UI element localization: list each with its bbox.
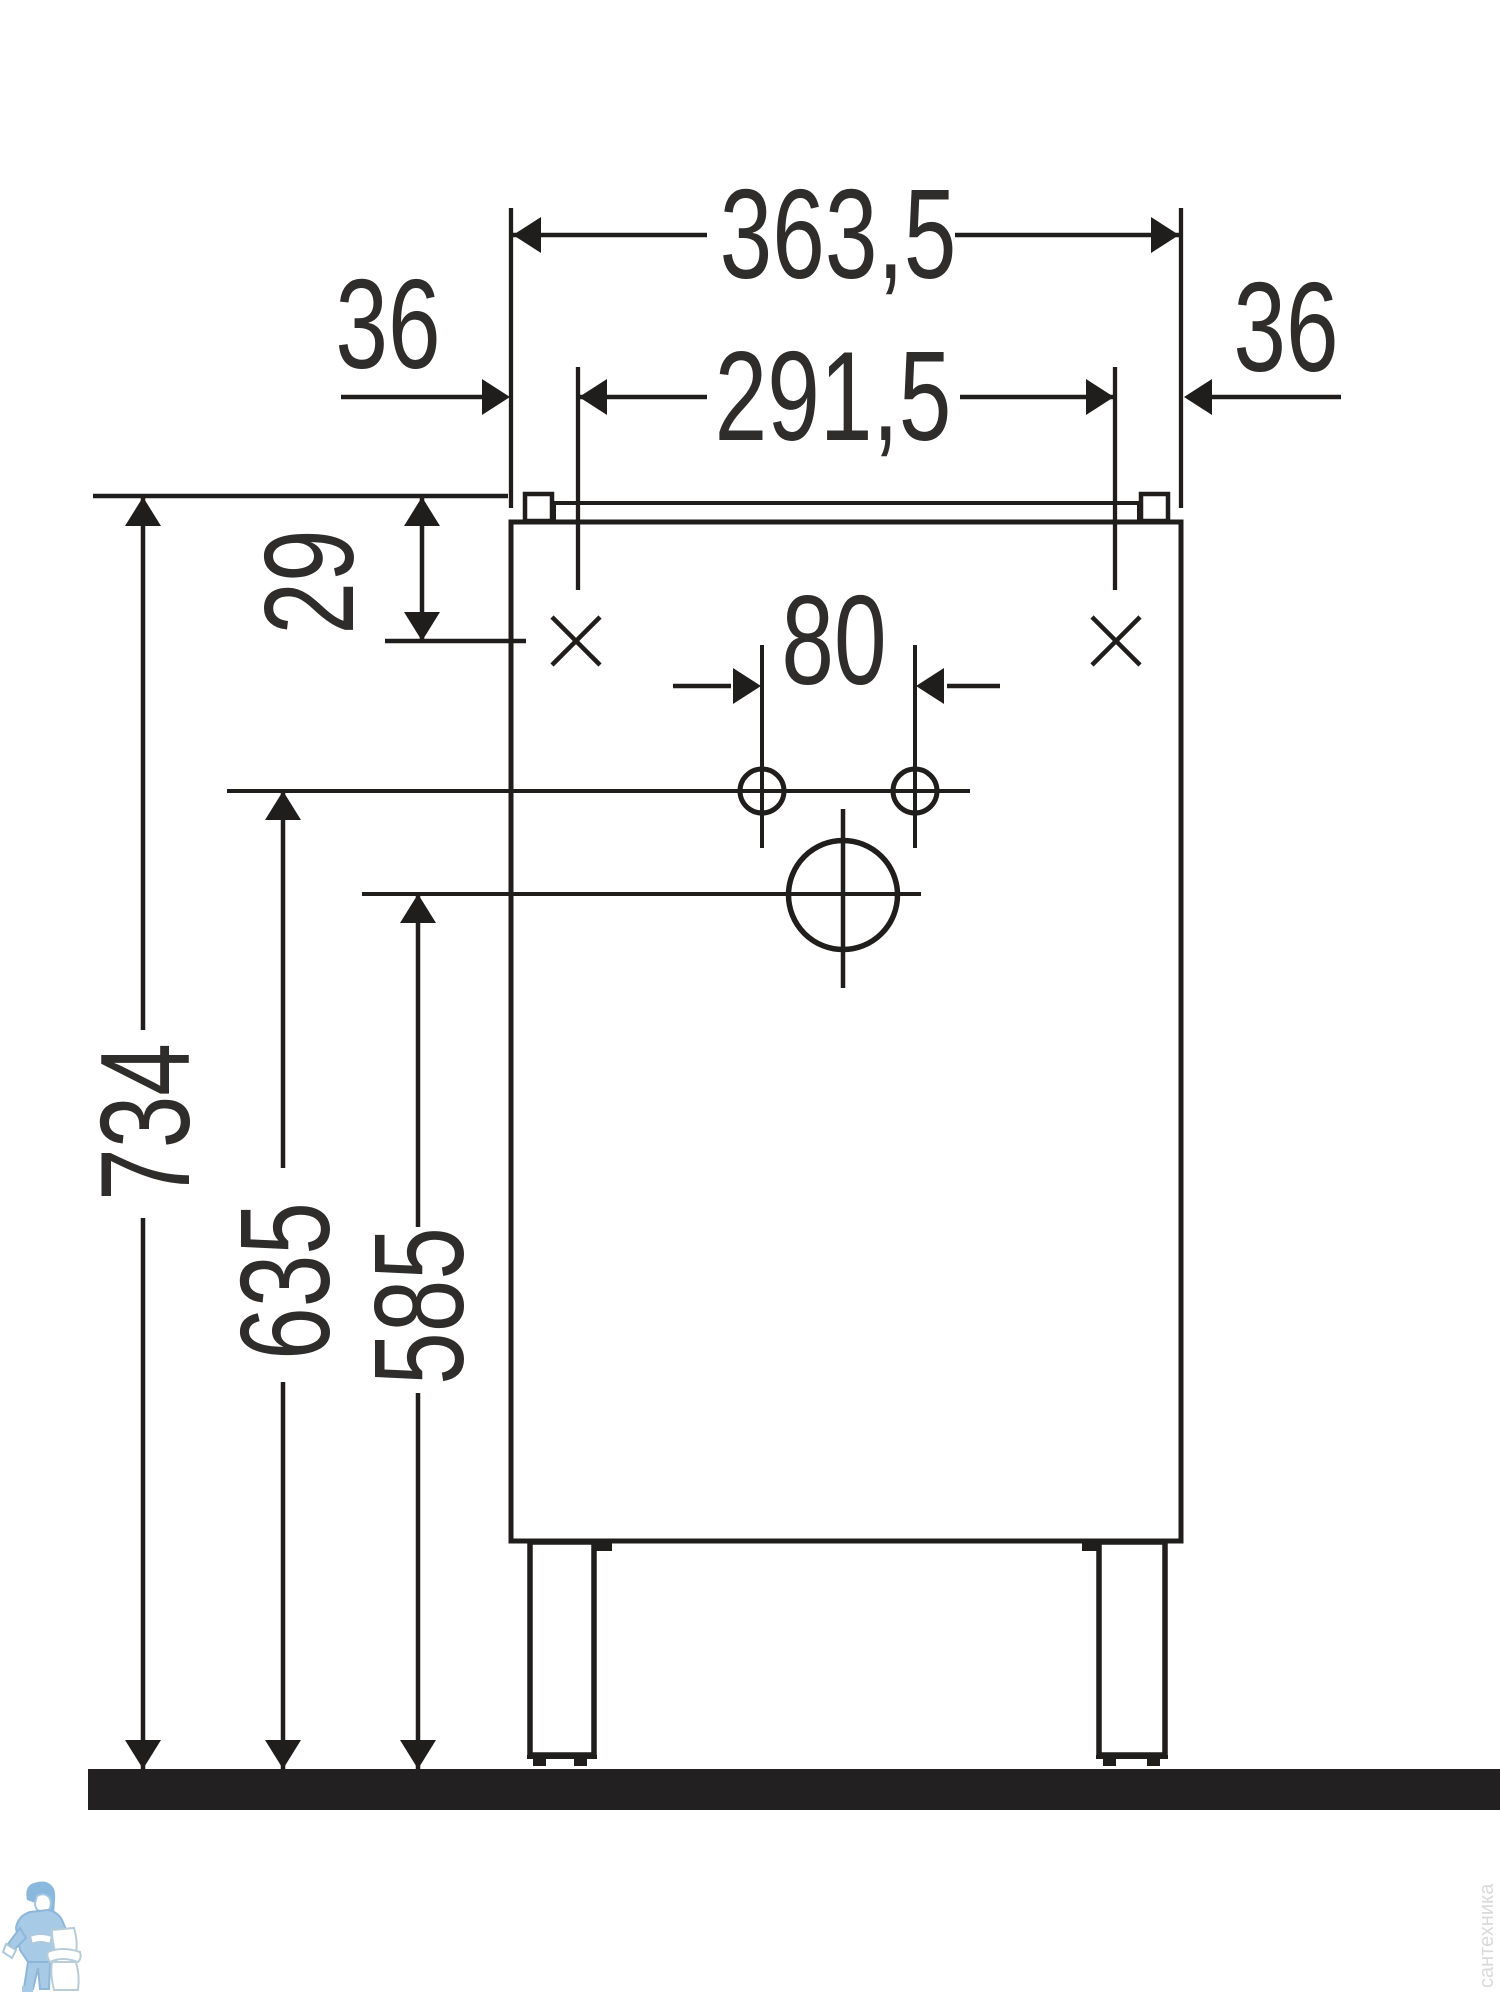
faucet holes reference line [227, 789, 970, 793]
dim 29 line [420, 497, 425, 641]
dim 80 extension line right [913, 645, 917, 848]
drain hole vertical centerline [841, 809, 846, 988]
left leg [530, 1542, 594, 1755]
countertop slab [554, 503, 1139, 521]
watermark plumber logo [3, 1882, 81, 1992]
dim 291,5 line [578, 395, 707, 400]
dim 635 line [281, 791, 286, 1168]
dim 36 right line [1212, 395, 1341, 400]
dim 36 left line [341, 395, 483, 400]
svg-text:80: 80 [781, 569, 886, 711]
top reference line [93, 494, 508, 499]
right screw cross mark [1092, 617, 1140, 665]
svg-text:сантехника: сантехника [1476, 1883, 1498, 1988]
svg-text:734: 734 [74, 1043, 216, 1201]
dim 80 extension line left [760, 645, 764, 848]
right mounting clip [1141, 494, 1168, 521]
29 bottom reference line [385, 639, 526, 644]
dim 363,5 extension line right [1179, 208, 1183, 508]
svg-text:363,5: 363,5 [720, 163, 957, 305]
svg-text:635: 635 [214, 1202, 356, 1360]
dim 363,5 line [513, 233, 707, 238]
dim 80 line left [673, 684, 731, 689]
drain hole reference line [362, 892, 921, 896]
svg-text:36: 36 [335, 253, 440, 395]
right faucet hole circle [893, 769, 937, 813]
left faucet hole circle [740, 769, 784, 813]
svg-text:29: 29 [238, 529, 380, 634]
dim 80 line right [947, 684, 1000, 689]
cabinet body [511, 522, 1181, 1541]
right leg [1099, 1542, 1165, 1755]
drain hole circle [789, 841, 898, 950]
left mounting clip [525, 494, 552, 521]
dim 291,5 extension line left [576, 367, 580, 590]
svg-text:291,5: 291,5 [715, 325, 952, 467]
svg-text:36: 36 [1233, 256, 1338, 398]
left screw cross mark [552, 617, 600, 665]
dim 734 line [141, 497, 146, 1030]
dim 291,5 extension line right [1113, 367, 1117, 590]
floor [88, 1769, 1500, 1810]
svg-text:585: 585 [348, 1227, 490, 1385]
dim 363,5 extension line left [509, 208, 513, 508]
dim 585 line [416, 894, 421, 1227]
